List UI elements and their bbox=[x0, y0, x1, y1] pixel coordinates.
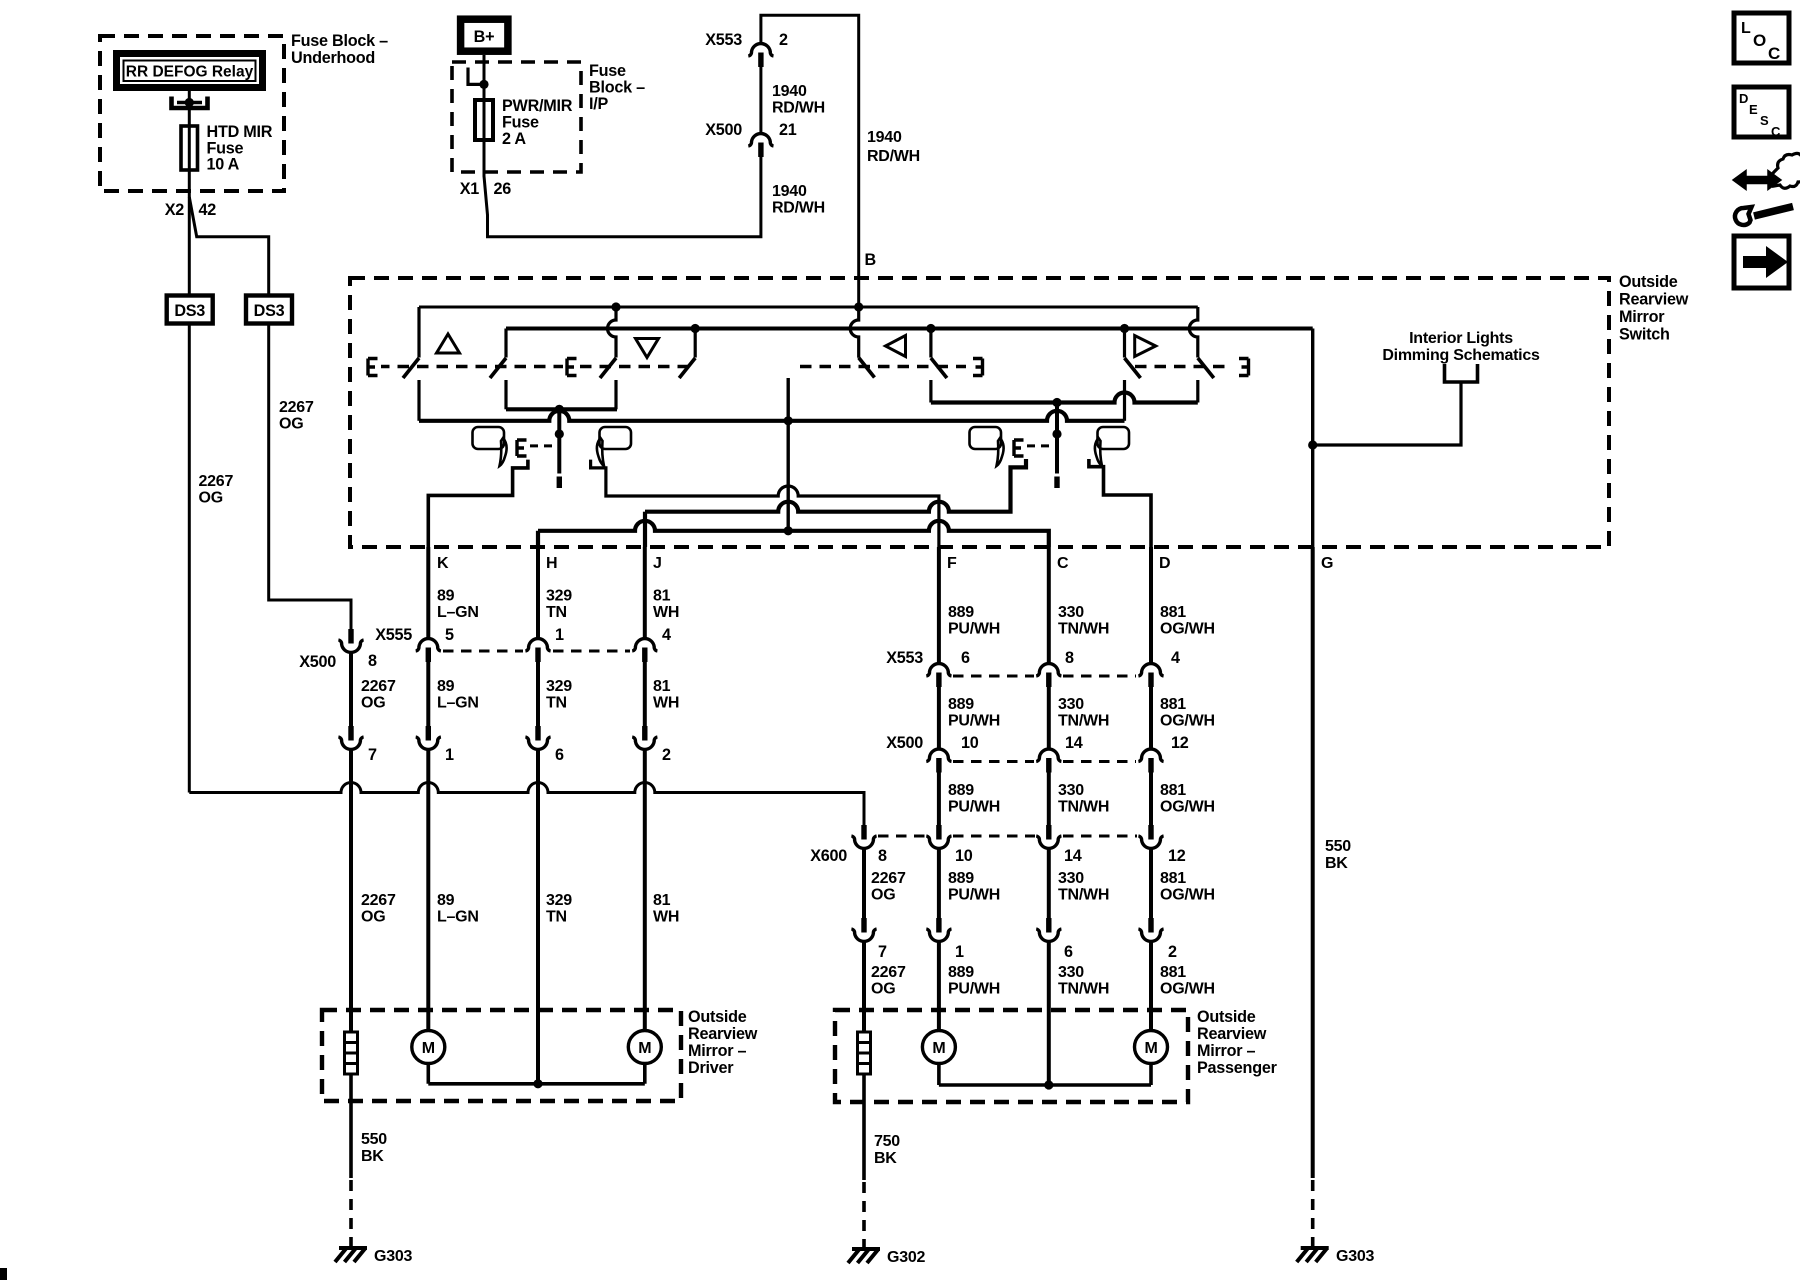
svg-text:DS3: DS3 bbox=[254, 302, 285, 320]
svg-text:Fuse: Fuse bbox=[589, 62, 626, 80]
mirror icon driver right bbox=[597, 427, 631, 466]
svg-text:329: 329 bbox=[546, 892, 572, 909]
driver select dashes bbox=[530, 444, 553, 447]
wire K column bbox=[426, 547, 430, 1031]
svg-text:Dimming Schematics: Dimming Schematics bbox=[1382, 347, 1540, 364]
passenger select open contact tick bbox=[1054, 477, 1059, 489]
label 89 L-GN mid bbox=[437, 678, 479, 712]
svg-text:Switch: Switch bbox=[1619, 326, 1670, 344]
label 2267 OG passenger bbox=[871, 870, 906, 904]
svg-text:G303: G303 bbox=[1336, 1248, 1374, 1265]
svg-text:OG/WH: OG/WH bbox=[1160, 981, 1215, 998]
svg-text:WH: WH bbox=[653, 604, 679, 621]
driver select wire with hop bbox=[557, 409, 561, 473]
label Outside Rearview Mirror Driver bbox=[688, 1008, 758, 1077]
label 89 L-GN upper bbox=[437, 588, 479, 622]
contact 3 upper stub with hop bbox=[608, 307, 617, 358]
fuse block underhood box bbox=[100, 36, 284, 191]
passenger mirror box bbox=[835, 1010, 1188, 1102]
svg-text:Outside: Outside bbox=[1619, 273, 1678, 291]
label Fuse Block I/P bbox=[589, 62, 645, 113]
left-arrow contact lower stub bbox=[929, 380, 932, 403]
connector row X553 bbox=[886, 649, 1180, 687]
feed wire to X600 with hops bbox=[189, 783, 864, 826]
ground G302 bbox=[848, 1249, 880, 1263]
wire between connectors bbox=[759, 67, 762, 133]
svg-text:OG: OG bbox=[871, 981, 895, 998]
right-arrow contact upper stub bbox=[1123, 329, 1126, 358]
svg-text:D: D bbox=[1739, 91, 1748, 106]
label 330 TN/WH row3 bbox=[1058, 782, 1109, 816]
label 881 OG/WH row4 bbox=[1160, 870, 1215, 904]
node top bus / down contact bbox=[611, 302, 620, 311]
svg-text:6: 6 bbox=[961, 649, 970, 667]
icon next arrow box bbox=[1734, 236, 1789, 288]
label 330 TN/WH upper bbox=[1058, 604, 1109, 638]
svg-text:M: M bbox=[932, 1040, 945, 1057]
svg-text:PU/WH: PU/WH bbox=[948, 621, 1000, 638]
svg-text:Rearview: Rearview bbox=[1619, 291, 1689, 309]
svg-text:Outside: Outside bbox=[1197, 1008, 1256, 1026]
svg-text:Driver: Driver bbox=[688, 1059, 734, 1077]
svg-text:OG: OG bbox=[361, 695, 385, 712]
label 881 OG/WH row2 bbox=[1160, 696, 1215, 730]
svg-text:881: 881 bbox=[1160, 696, 1186, 713]
symbol right triangle bbox=[1135, 336, 1156, 357]
svg-text:L–GN: L–GN bbox=[437, 604, 479, 621]
svg-text:10: 10 bbox=[955, 847, 973, 865]
label Fuse Block Underhood bbox=[291, 32, 388, 67]
svg-text:B: B bbox=[865, 251, 876, 269]
svg-text:Rearview: Rearview bbox=[688, 1025, 758, 1043]
connector X2 pin 42 bbox=[165, 201, 217, 219]
wire C column bbox=[1047, 547, 1051, 1085]
svg-text:RD/WH: RD/WH bbox=[772, 200, 825, 217]
symbol down triangle bbox=[636, 339, 659, 358]
wire 2267 OG from DS3 left bbox=[188, 324, 191, 793]
ground lead passenger dashed bbox=[862, 1182, 866, 1247]
fuse holder pin bbox=[468, 68, 489, 90]
svg-text:8: 8 bbox=[878, 847, 887, 865]
svg-text:330: 330 bbox=[1058, 870, 1084, 887]
wire B into switch with hop bbox=[850, 307, 859, 358]
label 81 WH mid bbox=[653, 678, 679, 712]
svg-text:Underhood: Underhood bbox=[291, 49, 375, 67]
svg-text:DS3: DS3 bbox=[174, 302, 205, 320]
mirror icon driver left bbox=[473, 427, 507, 466]
fuse PWR/MIR 2 A bbox=[475, 97, 573, 148]
svg-text:8: 8 bbox=[368, 652, 377, 670]
label 889 PU/WH row5 bbox=[948, 964, 1000, 998]
rail contact 1 upper bbox=[417, 307, 420, 358]
svg-text:L: L bbox=[1741, 20, 1751, 37]
svg-text:14: 14 bbox=[1065, 734, 1083, 752]
node sub-bus left center bbox=[555, 405, 564, 414]
svg-text:89: 89 bbox=[437, 892, 455, 909]
node passenger motor bus / C bbox=[1044, 1080, 1053, 1089]
ground lead G wire dashed bbox=[1311, 1180, 1315, 1246]
mech link row left E bracket 1 bbox=[368, 359, 378, 376]
node sub-bus right center bbox=[1052, 398, 1061, 407]
wire relay to fuse bbox=[188, 91, 191, 127]
svg-text:OG: OG bbox=[199, 490, 223, 507]
svg-text:TN/WH: TN/WH bbox=[1058, 713, 1109, 730]
label 889 PU/WH upper bbox=[948, 604, 1000, 638]
node driver motor bus / H bbox=[533, 1079, 542, 1088]
sub-bus right with hop bbox=[931, 393, 1198, 403]
svg-text:B+: B+ bbox=[474, 28, 495, 46]
wire 2267 OG from DS3 right bbox=[269, 324, 351, 630]
mech link row left dashes bbox=[381, 365, 563, 368]
svg-text:OG/WH: OG/WH bbox=[1160, 713, 1215, 730]
label 2267 OG passenger lower bbox=[871, 964, 906, 998]
switch blade left-arrow bbox=[931, 358, 947, 378]
icon arrows and wrench bbox=[1733, 153, 1800, 225]
symbol up triangle bbox=[437, 334, 460, 353]
driver right select wire staircase line1 to pin F bbox=[591, 460, 939, 547]
svg-text:X500: X500 bbox=[299, 653, 336, 671]
svg-text:750: 750 bbox=[874, 1133, 900, 1150]
contact 4 upper stub bbox=[694, 329, 697, 358]
svg-text:Fuse Block –: Fuse Block – bbox=[291, 32, 388, 50]
battery feed B+ bbox=[461, 19, 508, 51]
svg-text:89: 89 bbox=[437, 588, 455, 605]
label 881 OG/WH row3 bbox=[1160, 782, 1215, 816]
svg-text:1940: 1940 bbox=[867, 129, 902, 146]
svg-text:F: F bbox=[947, 555, 957, 572]
svg-text:330: 330 bbox=[1058, 782, 1084, 799]
svg-text:K: K bbox=[437, 555, 449, 572]
line3 pin H to pin C with hops bbox=[538, 521, 1049, 547]
label 329 TN upper bbox=[546, 588, 572, 622]
ground lead driver dashed bbox=[349, 1180, 353, 1246]
svg-text:81: 81 bbox=[653, 588, 671, 605]
motor M passenger left bbox=[922, 1031, 955, 1064]
svg-text:2267: 2267 bbox=[871, 870, 906, 887]
switch blade 1 up bbox=[403, 358, 419, 378]
label 1940 RD/WH mid bbox=[772, 83, 825, 117]
svg-text:G: G bbox=[1321, 555, 1333, 572]
svg-text:C: C bbox=[1768, 44, 1780, 63]
label Outside Rearview Mirror Passenger bbox=[1197, 1008, 1278, 1077]
label 1940 RD/WH right bbox=[867, 129, 920, 165]
svg-text:S: S bbox=[1760, 113, 1769, 128]
relay RR DEFOG bbox=[117, 54, 263, 88]
label 750 BK bbox=[874, 1133, 900, 1167]
svg-text:Interior Lights: Interior Lights bbox=[1409, 330, 1513, 347]
svg-text:X553: X553 bbox=[886, 649, 923, 667]
svg-text:PWR/MIR: PWR/MIR bbox=[502, 97, 573, 115]
contact 3 lower stub bbox=[614, 380, 617, 409]
svg-text:10: 10 bbox=[961, 734, 979, 752]
node second bus right-arrow contact bbox=[1120, 324, 1129, 333]
svg-text:TN/WH: TN/WH bbox=[1058, 799, 1109, 816]
mech link row left dashes 2 bbox=[580, 365, 689, 368]
svg-text:889: 889 bbox=[948, 964, 974, 981]
driver select open contact tick bbox=[557, 477, 562, 489]
wire X1-26 down and right bbox=[484, 140, 761, 237]
label 330 TN/WH row5 bbox=[1058, 964, 1109, 998]
main bottom bus with hops bbox=[419, 411, 1125, 421]
svg-text:J: J bbox=[653, 555, 662, 572]
wire 2267 OG into passenger mirror bbox=[862, 942, 866, 1032]
svg-text:M: M bbox=[638, 1040, 651, 1057]
svg-text:TN: TN bbox=[546, 909, 567, 926]
svg-text:X1: X1 bbox=[460, 180, 480, 198]
svg-text:329: 329 bbox=[546, 678, 572, 695]
label 2267 OG right bbox=[279, 399, 314, 433]
mech link row right reverse E bracket 1 bbox=[973, 359, 983, 376]
svg-text:2 A: 2 A bbox=[502, 130, 526, 148]
ground G303 left bbox=[335, 1248, 367, 1262]
top bus bbox=[419, 306, 1198, 309]
wire fuse to DS3 left bbox=[188, 170, 191, 296]
svg-text:2267: 2267 bbox=[871, 964, 906, 981]
motor M driver right bbox=[628, 1031, 661, 1064]
svg-text:2: 2 bbox=[662, 746, 671, 764]
svg-text:Passenger: Passenger bbox=[1197, 1059, 1278, 1077]
node line3 / center vertical bbox=[784, 526, 793, 535]
motor M passenger right bbox=[1135, 1031, 1168, 1064]
second bus bbox=[506, 327, 1313, 331]
svg-text:G303: G303 bbox=[374, 1248, 412, 1265]
mech link row right dashes 2 bbox=[1135, 365, 1232, 368]
svg-text:TN/WH: TN/WH bbox=[1058, 621, 1109, 638]
motor M driver left bbox=[412, 1031, 445, 1064]
svg-text:RR DEFOG Relay: RR DEFOG Relay bbox=[126, 64, 254, 81]
mech link row right dashes 1 bbox=[800, 365, 966, 368]
label 889 PU/WH row2 bbox=[948, 696, 1000, 730]
svg-text:26: 26 bbox=[494, 180, 512, 198]
svg-text:M: M bbox=[422, 1040, 435, 1057]
switch blade 3 down bbox=[600, 358, 616, 378]
svg-text:TN: TN bbox=[546, 604, 567, 621]
svg-text:329: 329 bbox=[546, 588, 572, 605]
svg-text:TN: TN bbox=[546, 695, 567, 712]
wire 550 BK driver bbox=[349, 1074, 353, 1178]
svg-text:Fuse: Fuse bbox=[502, 114, 539, 132]
svg-text:42: 42 bbox=[199, 201, 217, 219]
svg-text:RD/WH: RD/WH bbox=[772, 100, 825, 117]
svg-text:2: 2 bbox=[779, 31, 788, 49]
svg-text:14: 14 bbox=[1064, 847, 1082, 865]
svg-text:81: 81 bbox=[653, 892, 671, 909]
svg-text:OG/WH: OG/WH bbox=[1160, 621, 1215, 638]
heater element passenger bbox=[858, 1032, 871, 1074]
node second bus contact 4 bbox=[691, 324, 700, 333]
svg-text:HTD MIR: HTD MIR bbox=[207, 123, 273, 141]
switch blade 2 bbox=[490, 358, 506, 378]
svg-text:8: 8 bbox=[1065, 649, 1074, 667]
connector X1 pin 26 bbox=[460, 180, 512, 198]
connector X500 pin 8 bbox=[299, 629, 377, 671]
label Outside Rearview Mirror Switch bbox=[1619, 273, 1689, 344]
svg-text:L–GN: L–GN bbox=[437, 909, 479, 926]
connector row X500 passenger bbox=[886, 734, 1189, 773]
right-arrow contact lower stub bbox=[1123, 380, 1126, 421]
driver mirror box bbox=[322, 1010, 681, 1101]
wire G from second bus bbox=[1311, 329, 1314, 548]
svg-text:X500: X500 bbox=[886, 734, 923, 752]
switch blade 4R bbox=[1198, 358, 1214, 378]
svg-text:7: 7 bbox=[878, 943, 887, 961]
svg-text:OG: OG bbox=[871, 887, 895, 904]
svg-text:OG/WH: OG/WH bbox=[1160, 887, 1215, 904]
wire J column bbox=[643, 547, 647, 1031]
svg-text:H: H bbox=[546, 555, 557, 572]
symbol left triangle bbox=[886, 336, 906, 357]
wire 1940 RD/WH below X500-21 bbox=[772, 183, 825, 217]
label 81 WH lower bbox=[653, 892, 679, 926]
wire 2267 OG X600 to pin 7 bbox=[862, 849, 866, 918]
rail contact 1 lower bbox=[417, 380, 420, 421]
svg-text:M: M bbox=[1144, 1040, 1157, 1057]
sub-bus left bbox=[506, 407, 617, 411]
connector X553 pin 2 bbox=[705, 31, 788, 67]
svg-text:OG: OG bbox=[279, 416, 303, 433]
svg-text:81: 81 bbox=[653, 678, 671, 695]
wire H column bbox=[536, 547, 540, 1084]
svg-text:X600: X600 bbox=[810, 847, 847, 865]
label 329 TN mid bbox=[546, 678, 572, 712]
connector row X600 bbox=[810, 825, 1186, 865]
svg-text:C: C bbox=[1771, 124, 1781, 139]
fuse block I/P box bbox=[452, 62, 581, 172]
svg-text:10 A: 10 A bbox=[207, 156, 240, 174]
svg-text:O: O bbox=[1753, 31, 1766, 50]
svg-text:2267: 2267 bbox=[199, 473, 234, 490]
passenger select E bracket bbox=[1014, 440, 1024, 456]
line2 pin J to passenger left select with hops bbox=[645, 459, 1026, 512]
passenger select center wire with hop bbox=[1055, 403, 1059, 474]
mech link row left E bracket 2 bbox=[567, 359, 577, 376]
label 330 TN/WH row4 bbox=[1058, 870, 1109, 904]
svg-text:C: C bbox=[1057, 555, 1069, 572]
svg-text:21: 21 bbox=[779, 121, 797, 139]
svg-text:PU/WH: PU/WH bbox=[948, 981, 1000, 998]
svg-text:X555: X555 bbox=[375, 626, 412, 644]
node second bus left-arrow contact bbox=[926, 324, 935, 333]
wire F column bbox=[937, 547, 941, 1031]
svg-text:881: 881 bbox=[1160, 870, 1186, 887]
svg-text:881: 881 bbox=[1160, 782, 1186, 799]
svg-text:D: D bbox=[1159, 555, 1170, 572]
switch blade 4 bbox=[679, 358, 695, 378]
wire 2267 OG into driver mirror bbox=[349, 750, 353, 1032]
wire branch to DS3 right bbox=[189, 197, 268, 296]
indicator DS3 left bbox=[167, 296, 213, 324]
driver motor bus bbox=[428, 1064, 645, 1084]
mech link row right reverse E bracket 2 bbox=[1239, 359, 1249, 376]
svg-text:I/P: I/P bbox=[589, 95, 608, 113]
page artifact bottom-left bbox=[0, 1268, 7, 1280]
node driver select pivot bbox=[555, 429, 564, 438]
node passenger select pivot bbox=[1052, 429, 1061, 438]
svg-text:PU/WH: PU/WH bbox=[948, 799, 1000, 816]
svg-text:Outside: Outside bbox=[688, 1008, 747, 1026]
svg-text:889: 889 bbox=[948, 782, 974, 799]
svg-text:2267: 2267 bbox=[361, 892, 396, 909]
wire B+ to fuse bbox=[483, 55, 486, 100]
label 2267 OG left bbox=[199, 473, 234, 507]
svg-text:TN/WH: TN/WH bbox=[1058, 887, 1109, 904]
svg-text:X500: X500 bbox=[705, 121, 742, 139]
passenger motor bus bbox=[939, 1064, 1151, 1086]
label 329 TN lower bbox=[546, 892, 572, 926]
svg-text:7: 7 bbox=[368, 746, 377, 764]
svg-text:2267: 2267 bbox=[361, 678, 396, 695]
wire 1940 RD/WH to B bbox=[761, 15, 859, 307]
svg-text:12: 12 bbox=[1171, 734, 1189, 752]
label 889 PU/WH row4 bbox=[948, 870, 1000, 904]
svg-text:550: 550 bbox=[361, 1131, 387, 1148]
icon LOC box bbox=[1734, 13, 1789, 63]
svg-text:4: 4 bbox=[662, 626, 671, 644]
svg-text:WH: WH bbox=[653, 695, 679, 712]
svg-text:6: 6 bbox=[1064, 943, 1073, 961]
svg-text:89: 89 bbox=[437, 678, 455, 695]
label 330 TN/WH row2 bbox=[1058, 696, 1109, 730]
svg-text:2267: 2267 bbox=[279, 399, 314, 416]
contact 2 lower stub bbox=[504, 380, 507, 409]
svg-text:889: 889 bbox=[948, 696, 974, 713]
icon DESC box bbox=[1734, 87, 1789, 139]
ground G303 right bbox=[1297, 1248, 1329, 1262]
svg-text:5: 5 bbox=[445, 626, 454, 644]
left-arrow contact upper stub bbox=[929, 329, 932, 358]
wire D column bbox=[1149, 547, 1153, 1031]
svg-text:G302: G302 bbox=[887, 1249, 925, 1266]
wire pin J up to line2 bbox=[643, 512, 647, 547]
svg-text:BK: BK bbox=[361, 1148, 384, 1165]
center vertical wire bbox=[787, 378, 790, 531]
passenger right select staircase to pin D bbox=[1089, 459, 1151, 547]
svg-text:6: 6 bbox=[555, 746, 564, 764]
label 881 OG/WH row5 bbox=[1160, 964, 1215, 998]
svg-text:1940: 1940 bbox=[772, 83, 807, 100]
interior lights off-page bracket bbox=[1445, 364, 1478, 382]
svg-text:Mirror –: Mirror – bbox=[1197, 1042, 1256, 1060]
node G wire / interior lights bbox=[1308, 440, 1317, 449]
label 89 L-GN lower bbox=[437, 892, 479, 926]
passenger mirror connector row bbox=[851, 918, 1177, 961]
connector row X555 bbox=[375, 626, 671, 662]
svg-text:2: 2 bbox=[1168, 943, 1177, 961]
label 550 BK driver bbox=[361, 1131, 387, 1165]
label 2267 OG column bbox=[361, 678, 396, 712]
heater element driver bbox=[345, 1032, 358, 1074]
wire interior lights to G bbox=[1313, 382, 1461, 445]
svg-text:PU/WH: PU/WH bbox=[948, 887, 1000, 904]
svg-text:L–GN: L–GN bbox=[437, 695, 479, 712]
mirror icon passenger right bbox=[1095, 427, 1129, 466]
label 889 PU/WH row3 bbox=[948, 782, 1000, 816]
svg-text:330: 330 bbox=[1058, 604, 1084, 621]
svg-text:1: 1 bbox=[555, 626, 564, 644]
driver select E bracket bbox=[517, 440, 527, 456]
wire 750 BK passenger bbox=[862, 1074, 866, 1180]
svg-text:1: 1 bbox=[955, 943, 964, 961]
svg-text:889: 889 bbox=[948, 870, 974, 887]
contact 2 upper stub bbox=[504, 329, 507, 358]
svg-text:Mirror: Mirror bbox=[1619, 308, 1665, 326]
relay pin bracket bbox=[172, 97, 208, 109]
svg-text:X553: X553 bbox=[705, 31, 742, 49]
wire G column 550 BK bbox=[1311, 547, 1315, 1178]
contact 4R lower stub bbox=[1196, 380, 1199, 403]
passenger select dashes bbox=[1027, 444, 1051, 447]
svg-text:BK: BK bbox=[1325, 855, 1348, 872]
